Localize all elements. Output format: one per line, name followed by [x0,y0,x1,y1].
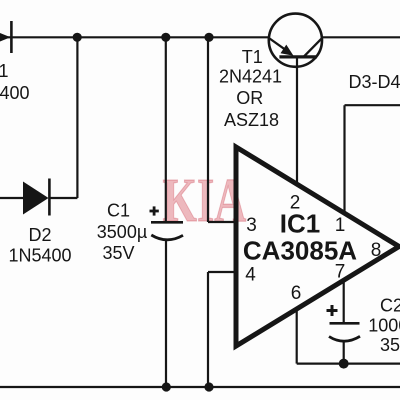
node junction pin3 branch [204,33,213,42]
svg-text:OR: OR [236,88,263,108]
svg-text:35V: 35V [380,335,400,355]
svg-text:C1: C1 [107,200,130,220]
wire pin3 horizontal stub [208,221,236,223]
wire D2 cathode to corner [49,197,77,199]
node junction C2 bottom [339,359,349,369]
svg-text:3500µ: 3500µ [97,222,147,242]
wire D2 anode from left edge [0,197,23,199]
svg-text:7: 7 [335,262,346,283]
diode D1 [0,21,11,53]
KIA watermark [163,166,247,235]
diode D2 [23,179,49,216]
wire C1 bottom vertical [165,240,167,387]
capacitor C2 [329,323,360,341]
svg-text:35V: 35V [102,243,134,263]
wire pin7 vertical to C2 [343,281,345,323]
svg-text:T1: T1 [242,47,263,67]
wire C2 bottom [343,342,345,364]
capacitor C1 [151,222,183,240]
svg-text:ASZ18: ASZ18 [224,110,279,130]
svg-text:2: 2 [290,193,301,214]
C2 plus polarity mark [327,305,338,316]
svg-text:1000µ: 1000µ [368,316,400,336]
op-amp IC1 triangle [236,147,399,346]
wire pin1 vertical [343,105,345,213]
svg-text:1N5400: 1N5400 [0,83,30,103]
svg-text:D3-D4: D3-D4 [348,72,400,92]
svg-text:2N4241: 2N4241 [219,66,282,86]
node junction C1 branch [161,33,170,42]
svg-text:4: 4 [245,265,256,286]
node junction D2 branch [73,33,82,42]
svg-text:D2: D2 [28,225,51,245]
wire top rail left of T1 [0,36,269,38]
C1 plus polarity mark [150,206,159,215]
transistor T1 [269,14,322,67]
wire bottom rail [0,386,400,388]
wire C1 top vertical [165,37,167,221]
svg-text:6: 6 [291,283,302,304]
node junction C1 bottom [162,382,171,391]
wire D3-D4 horizontal to right edge [345,104,400,106]
svg-text:D1: D1 [0,61,9,81]
svg-text:1: 1 [335,215,346,236]
node junction pin4 bottom [204,382,213,391]
svg-text:8: 8 [371,240,382,261]
svg-text:C2: C2 [380,295,400,315]
wire pin6 vertical [296,309,298,364]
wire D2 branch vertical [76,37,78,198]
wire pin4 horizontal stub [208,271,236,273]
wire T1 base lead down to pin 2 [296,57,298,184]
wire top rail right of T1 [322,36,400,38]
svg-text:3: 3 [246,215,257,236]
wire pin4 vertical to bottom rail [207,272,209,387]
wire bottom-right horizontal to right edge [297,363,400,365]
wire pin3 vertical from top rail [207,37,209,222]
svg-text:1N5400: 1N5400 [8,245,71,265]
